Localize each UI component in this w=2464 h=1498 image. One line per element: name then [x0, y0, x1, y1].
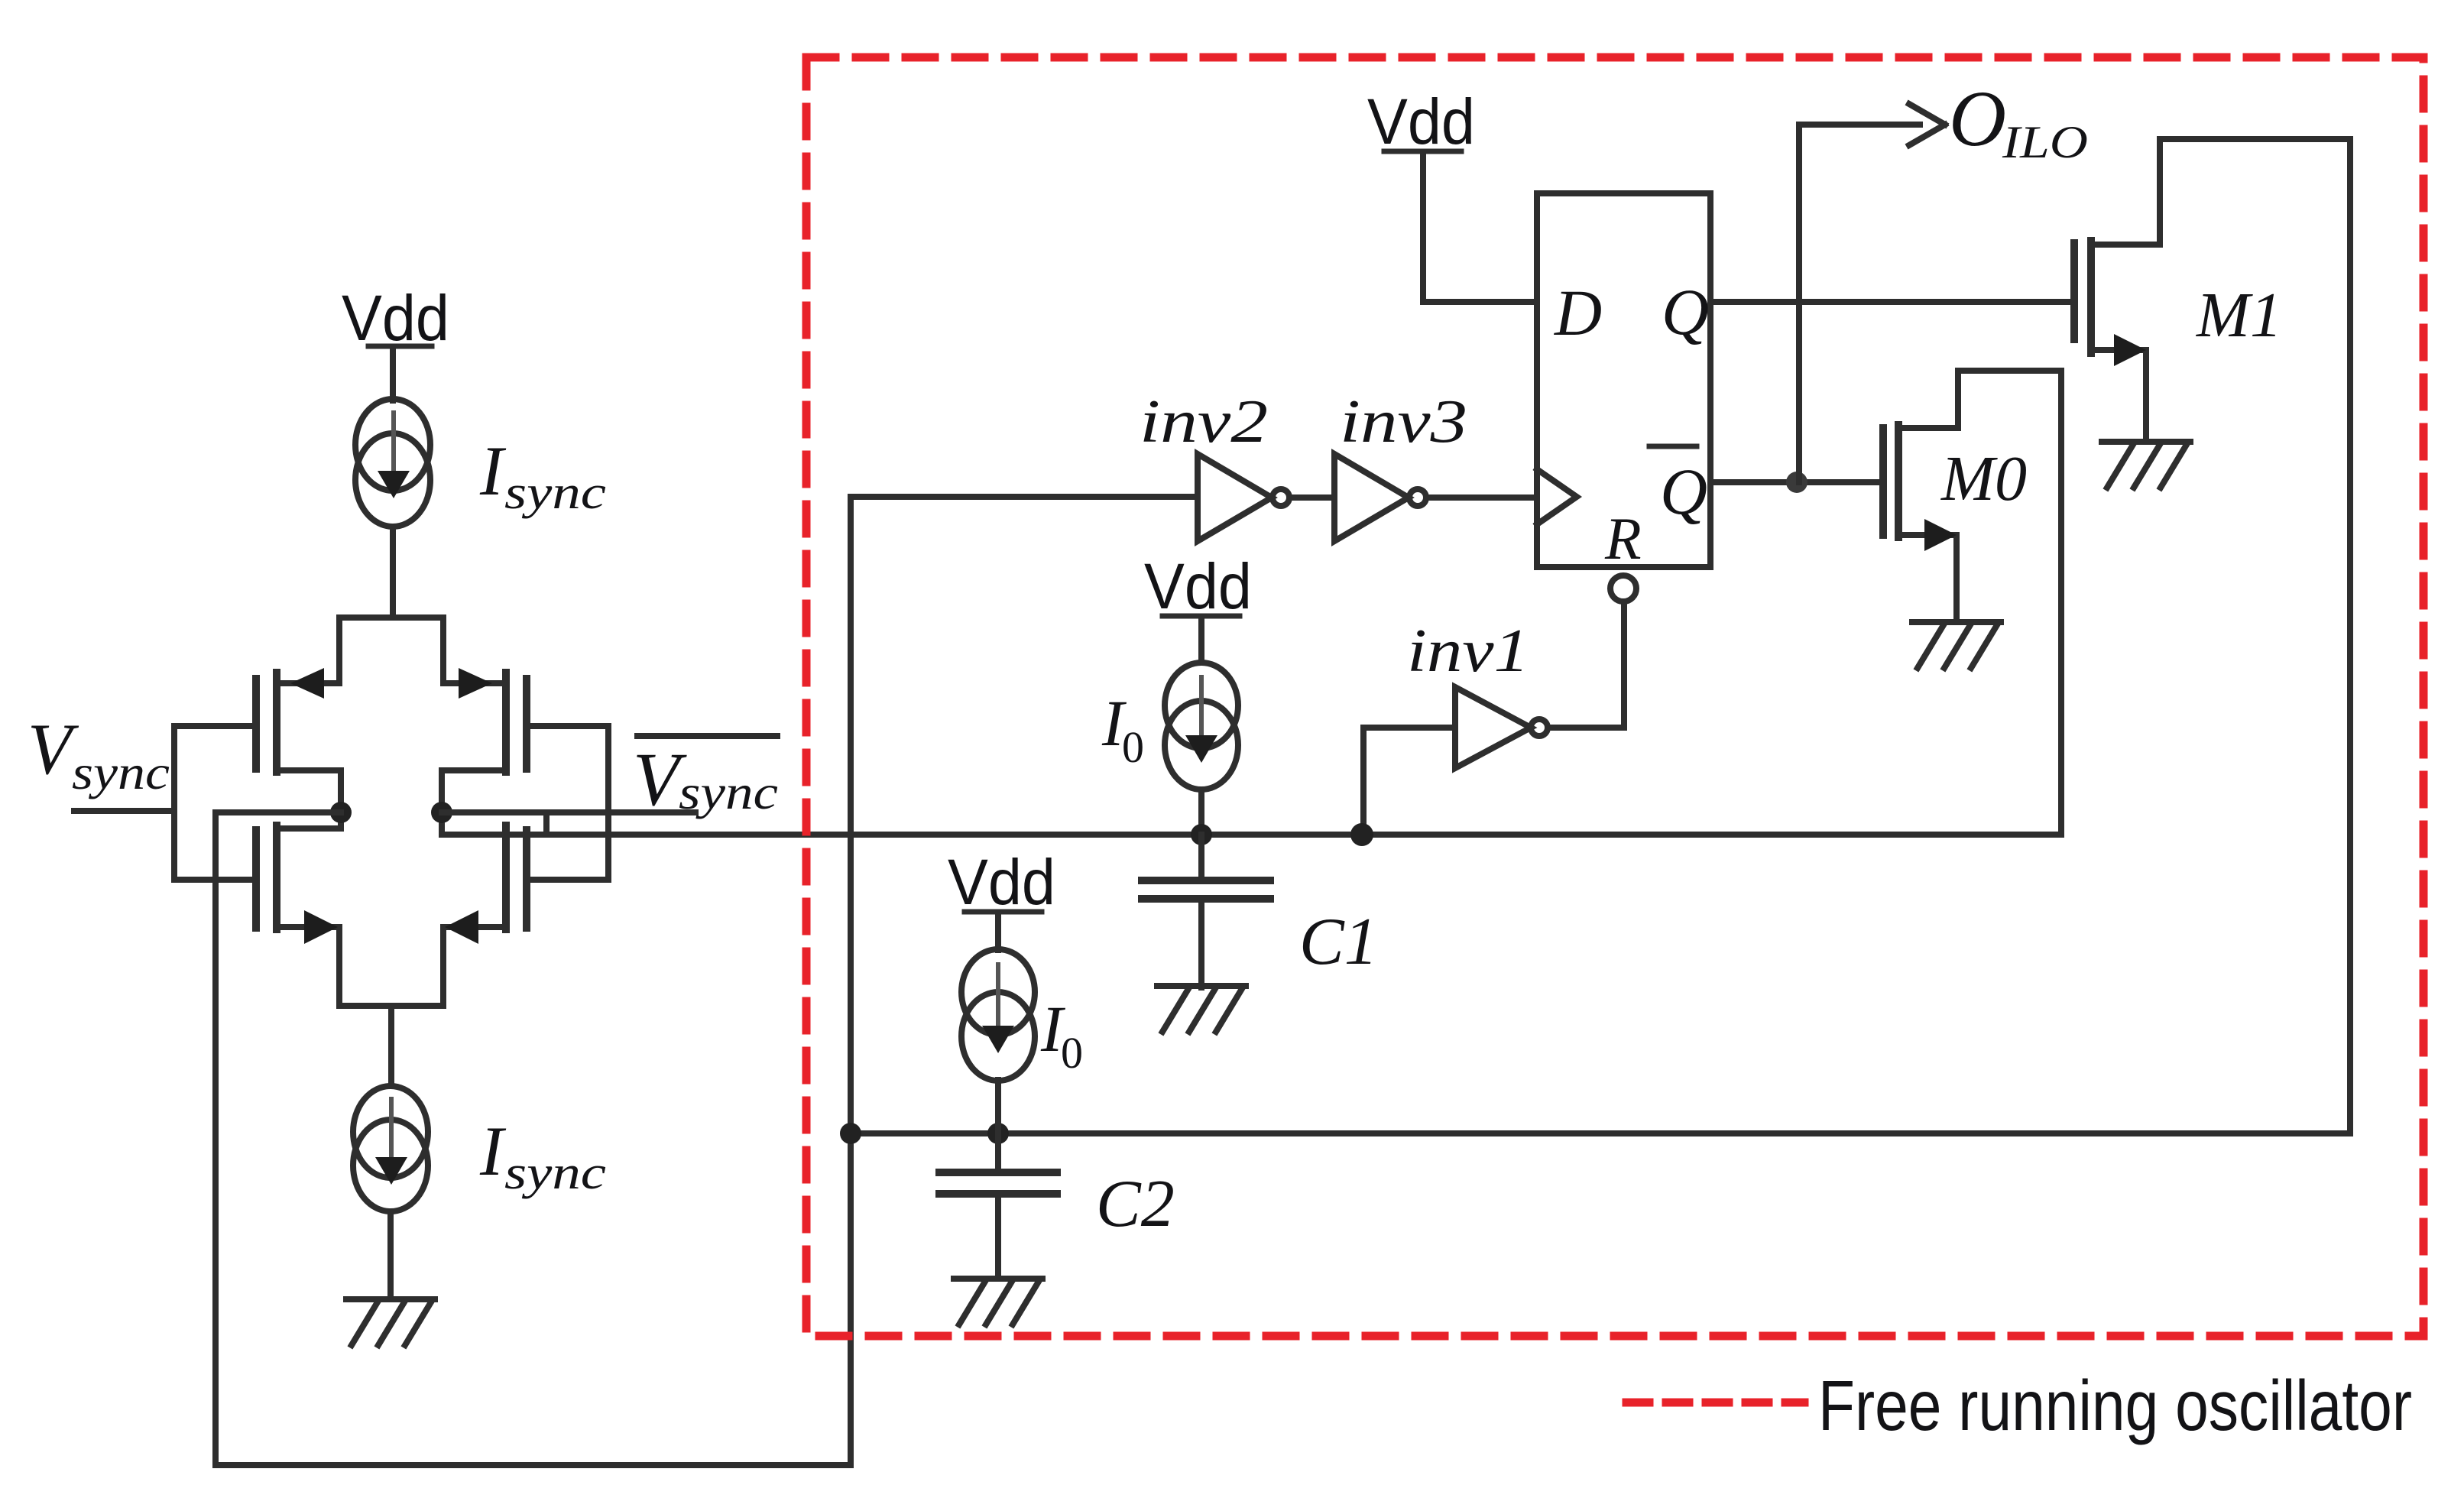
- svg-text:I: I: [479, 432, 507, 510]
- wire inv3 to flip-flop clock: [1426, 494, 1537, 501]
- label M1: [2196, 280, 2282, 351]
- wire Isync2 to ground: [387, 1211, 394, 1299]
- svg-text:Vdd: Vdd: [948, 846, 1055, 918]
- node inv1 input junction: [1350, 823, 1373, 846]
- legend dashed sample: [1626, 1399, 1804, 1407]
- wire Isync1 to quad top bar: [390, 527, 396, 618]
- svg-text:O: O: [1949, 75, 2006, 163]
- power Vdd label (I0 lower): [948, 846, 1055, 918]
- label C1: [1299, 905, 1378, 979]
- label I0 lower: [1040, 992, 1083, 1078]
- label M0: [1940, 443, 2027, 514]
- ground (below M1): [2102, 442, 2190, 488]
- ground (below C1): [1157, 986, 1246, 1032]
- arrow OILO: [1909, 104, 1945, 145]
- ground (below Isync2): [346, 1299, 435, 1345]
- wire quad top bar: [339, 614, 443, 621]
- svg-text:I: I: [479, 1112, 507, 1190]
- wire I0 upper to node: [1198, 790, 1204, 835]
- svg-text:M0: M0: [1940, 443, 2027, 514]
- flip-flop pin Q label: [1662, 275, 1709, 349]
- inverter inv2: [1198, 454, 1289, 541]
- wire OILO tap: [1799, 125, 1920, 482]
- svg-text:Vdd: Vdd: [342, 282, 449, 354]
- power Vdd label (left): [342, 282, 449, 354]
- power Vdd label (I0 upper): [1144, 550, 1252, 622]
- flip-flop R bubble: [1610, 576, 1636, 601]
- svg-text:0: 0: [1061, 1028, 1083, 1078]
- svg-text:inv3: inv3: [1340, 388, 1467, 456]
- svg-text:ILO: ILO: [2002, 117, 2088, 167]
- svg-text:C1: C1: [1299, 905, 1378, 979]
- node right drain junction: [431, 802, 452, 823]
- label I0 upper: [1101, 686, 1144, 772]
- svg-text:Free running oscillator: Free running oscillator: [1818, 1366, 2412, 1445]
- port label Vsync: [28, 708, 170, 799]
- port label Vsync-bar: [633, 737, 778, 822]
- port label OILO: [1949, 75, 2088, 167]
- wire inv2 to inv3: [1289, 494, 1334, 501]
- wire C2 line: [851, 1130, 2350, 1136]
- transistor quad bottom-right NMOS: [442, 812, 527, 1006]
- svg-text:Q: Q: [1662, 275, 1709, 349]
- flip-flop pin D label: [1554, 276, 1602, 349]
- legend text Free running oscillator: [1818, 1366, 2412, 1445]
- wire Vdd to Isync top: [390, 349, 396, 400]
- transistor quad top-right PMOS: [442, 618, 527, 812]
- power Vdd label (flip-flop): [1367, 86, 1475, 157]
- transistor quad bottom-left NMOS: [256, 812, 341, 1006]
- svg-text:Vdd: Vdd: [1367, 86, 1475, 157]
- wire I0 lower to node: [995, 1080, 1001, 1133]
- wire left node to feedback drop: [216, 809, 341, 815]
- node C2 line left junction: [840, 1123, 861, 1144]
- wire Vsync-bar gate connect (right): [527, 726, 608, 880]
- transistor M0: [1883, 425, 1958, 621]
- wire bottom feedback loop: [216, 1462, 851, 1468]
- transistor M1: [2074, 139, 2160, 441]
- wire M1 drain loop right vertical: [2347, 139, 2353, 1133]
- wire Vdd to I0 lower: [995, 915, 1001, 950]
- inverter inv1: [1455, 687, 1548, 768]
- svg-text:D: D: [1554, 276, 1602, 349]
- wire jog connector: [543, 812, 550, 835]
- wire Vdd to I0 upper: [1198, 619, 1204, 662]
- capacitor C1: [1142, 835, 1270, 987]
- label Isync2: [479, 1112, 606, 1199]
- label Vsync-bar overbar: [637, 733, 777, 739]
- wire Vdd to D input: [1423, 154, 1537, 302]
- label Isync1: [479, 432, 606, 519]
- svg-text:R: R: [1604, 505, 1642, 572]
- wire feedback right vertical to inv2 line: [848, 497, 854, 1465]
- wire inv1 input: [1363, 728, 1455, 835]
- svg-text:0: 0: [1122, 722, 1144, 772]
- wire Qbar to M0 gate: [1710, 479, 1883, 485]
- svg-text:sync: sync: [504, 467, 606, 519]
- svg-text:sync: sync: [72, 745, 170, 799]
- wire node line up to M0 drain: [1958, 371, 2061, 835]
- wire inv2 input: [851, 494, 1198, 500]
- wire quad bottom bar: [339, 1003, 443, 1009]
- current source Isync2: [353, 1086, 428, 1211]
- label C2: [1096, 1167, 1175, 1241]
- ground (below C2): [954, 1279, 1042, 1325]
- current source I0 lower: [961, 949, 1035, 1081]
- wire Vsync gate connect (left): [174, 726, 256, 880]
- svg-text:Vdd: Vdd: [1144, 550, 1252, 622]
- svg-text:sync: sync: [504, 1147, 606, 1199]
- boundary red dashed box: [806, 57, 2423, 1336]
- flip-flop U1 box: [1537, 193, 1710, 567]
- node left drain junction: [330, 802, 352, 823]
- node Qbar junction: [1786, 472, 1807, 493]
- node C2 top junction: [987, 1123, 1009, 1144]
- svg-text:inv1: inv1: [1407, 618, 1529, 685]
- wire Vsync-bar node (upper): [442, 809, 695, 815]
- svg-text:M1: M1: [2196, 280, 2282, 351]
- wire quad to Isync2: [388, 1006, 394, 1084]
- ground (below M0): [1912, 622, 2001, 668]
- wire Vsync input: [74, 808, 174, 814]
- label inv2: [1140, 388, 1268, 456]
- transistor quad top-left PMOS: [256, 618, 341, 812]
- inverter inv3: [1334, 454, 1426, 541]
- label inv1: [1407, 618, 1529, 685]
- wire feedback left vertical: [212, 812, 219, 1465]
- wire R to inv1 output: [1549, 604, 1624, 728]
- current source Isync1: [355, 399, 430, 527]
- node C1 junction: [1191, 824, 1212, 845]
- wire Vsync-bar long line to oscillator: [442, 832, 2061, 838]
- svg-text:Q: Q: [1660, 455, 1707, 528]
- current source I0 upper: [1165, 663, 1238, 790]
- flip-flop pin R label: [1604, 505, 1642, 572]
- wire Q to M1 gate: [1710, 299, 2074, 305]
- wire M1 drain loop top: [2160, 136, 2350, 142]
- capacitor C2: [939, 1133, 1057, 1278]
- flip-flop pin Qbar label: [1649, 446, 1707, 528]
- label inv3: [1340, 388, 1467, 456]
- svg-text:C2: C2: [1096, 1167, 1175, 1241]
- svg-text:inv2: inv2: [1140, 388, 1268, 456]
- flip-flop clock triangle: [1537, 469, 1577, 524]
